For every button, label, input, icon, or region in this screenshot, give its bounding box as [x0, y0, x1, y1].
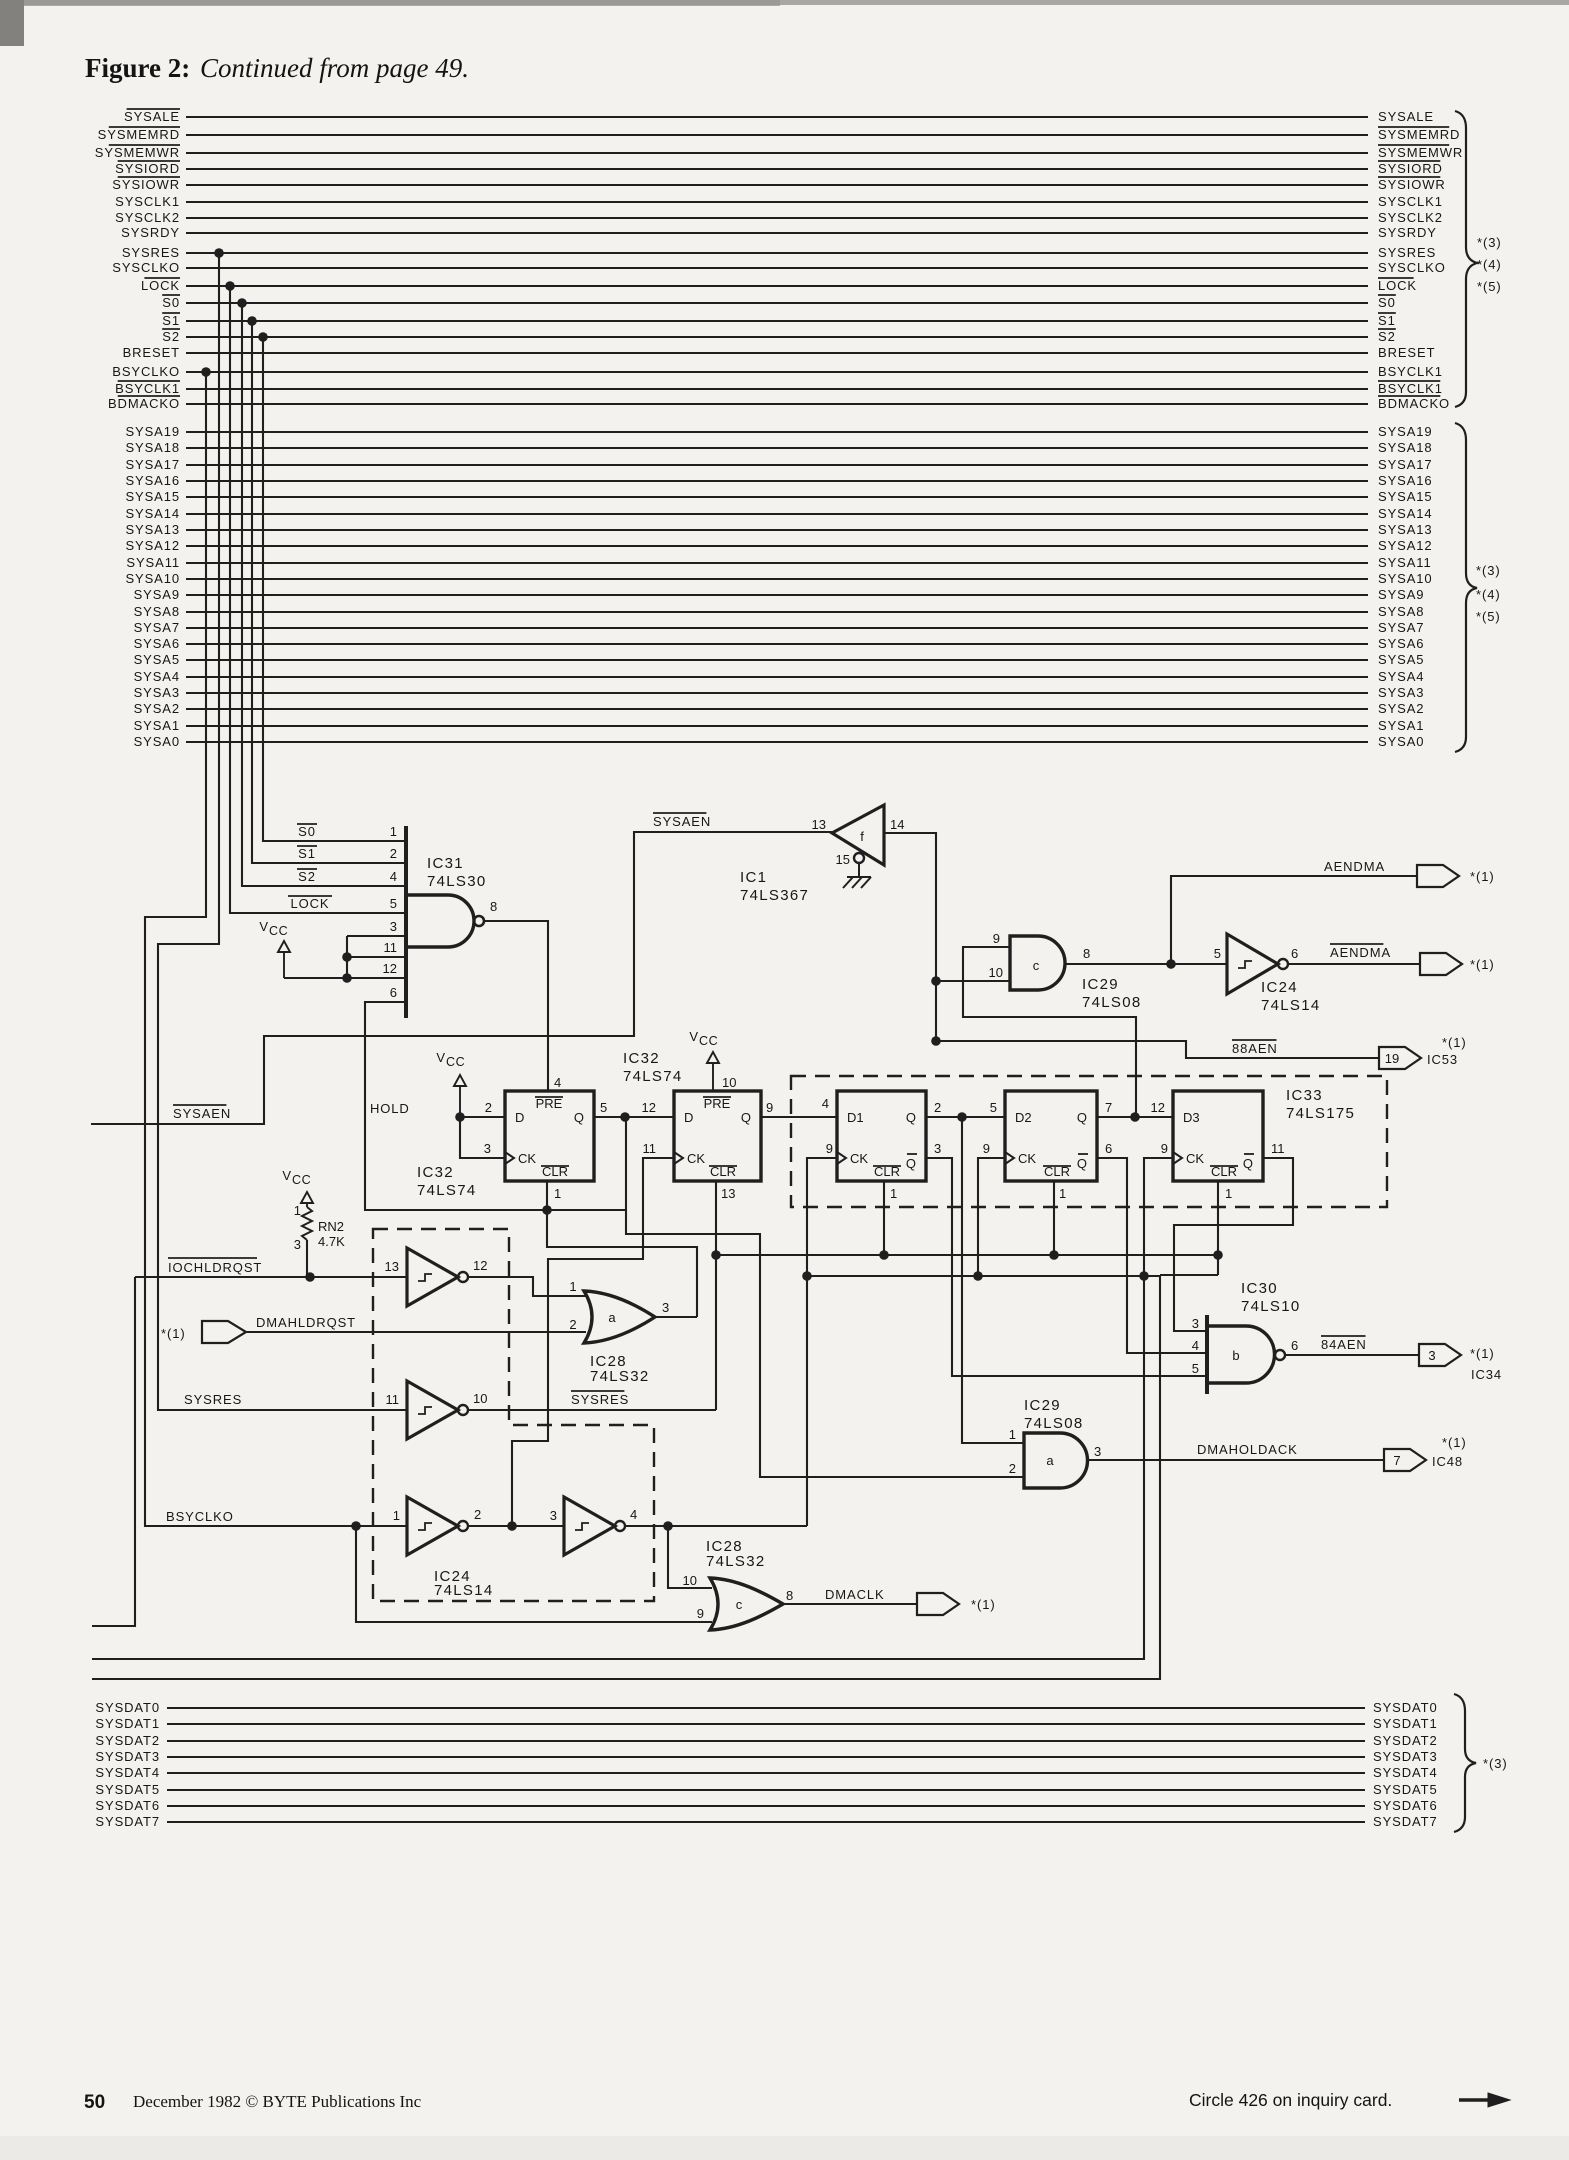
svg-text:SYSA18: SYSA18: [1378, 440, 1433, 455]
svg-text:S1: S1: [298, 846, 316, 861]
svg-text:D1: D1: [847, 1110, 864, 1125]
svg-text:SYSIORD: SYSIORD: [115, 161, 180, 176]
brace top block: [1455, 111, 1477, 407]
svg-text:4: 4: [554, 1075, 561, 1090]
svg-text:8: 8: [786, 1588, 793, 1603]
svg-text:HOLD: HOLD: [370, 1101, 410, 1116]
svg-text:Q: Q: [1077, 1156, 1087, 1171]
svg-text:IC31: IC31: [427, 855, 464, 872]
wire: SYSRES drop from bus to lower-left rail and SYSRES row: [158, 253, 407, 1410]
svg-text:SYSDAT7: SYSDAT7: [95, 1814, 160, 1829]
wire: IC32b CK from Schmitt chain: [512, 1158, 674, 1526]
svg-text:CK: CK: [1186, 1151, 1204, 1166]
svg-text:SYSCLKO: SYSCLKO: [112, 260, 180, 275]
bus line SYSDAT6: [167, 1805, 1365, 1807]
svg-text:SYSA9: SYSA9: [1378, 587, 1424, 602]
svg-text:*(1): *(1): [161, 1326, 186, 1341]
svg-text:SYSCLK2: SYSCLK2: [115, 210, 180, 225]
svg-text:RN2: RN2: [318, 1219, 344, 1234]
svg-text:6: 6: [390, 985, 397, 1000]
svg-text:CK: CK: [687, 1151, 705, 1166]
op IC24 inverter 11-10 (SYSRES): [407, 1381, 458, 1439]
svg-text:SYSRDY: SYSRDY: [121, 225, 180, 240]
bus line BRESET: [186, 352, 1368, 354]
junction dots (bus taps): [214, 248, 224, 258]
svg-text:3: 3: [1428, 1348, 1435, 1363]
svg-text:CK: CK: [850, 1151, 868, 1166]
wire: BSYCLKO drop from bus to lower-left rail and BSYCLKO row: [145, 372, 407, 1526]
svg-text:5: 5: [1214, 946, 1221, 961]
svg-text:IC29: IC29: [1024, 1397, 1061, 1414]
svg-text:S2: S2: [1378, 329, 1396, 344]
bus line SYSDAT5: [167, 1789, 1365, 1791]
wire: AND c pin 10 from 936 column: [936, 980, 1010, 982]
svg-text:3: 3: [1192, 1316, 1199, 1331]
svg-text:SYSA9: SYSA9: [134, 587, 180, 602]
svg-text:DMAHLDRQST: DMAHLDRQST: [256, 1315, 356, 1330]
svg-text:S1: S1: [1378, 313, 1396, 328]
svg-text:*(3): *(3): [1477, 235, 1502, 250]
svg-text:6: 6: [1105, 1141, 1112, 1156]
svg-text:SYSA15: SYSA15: [125, 489, 180, 504]
wire: D2 Q to D3 D: [1097, 1116, 1173, 1118]
svg-text:2: 2: [1009, 1461, 1016, 1476]
svg-text:Circle 426 on inquiry card.: Circle 426 on inquiry card.: [1189, 2090, 1392, 2110]
svg-text:BRESET: BRESET: [123, 345, 180, 360]
svg-text:12: 12: [473, 1258, 487, 1273]
wire: LOCK drop to IC31 pin 5: [230, 286, 406, 913]
svg-text:SYSA7: SYSA7: [134, 620, 180, 635]
svg-text:13: 13: [721, 1186, 735, 1201]
svg-text:SYSMEMRD: SYSMEMRD: [98, 127, 180, 142]
svg-text:*(1): *(1): [1470, 957, 1495, 972]
op IC1 74LS367 buffer f (points left): [832, 805, 884, 865]
svg-text:V: V: [282, 1168, 291, 1183]
IC1 pin15 bubble: [854, 853, 864, 863]
bus line SYSDAT0: [167, 1707, 1365, 1709]
wire: AENDMA-bar output: [1288, 963, 1420, 965]
svg-text:3: 3: [662, 1300, 669, 1315]
op IC28 OR gate a: [584, 1291, 655, 1343]
bus line SYSMEMRD: [186, 134, 1368, 136]
wire: IC32b CLR column to SYSRES-bar: [715, 1181, 717, 1410]
svg-text:12: 12: [1151, 1100, 1165, 1115]
svg-text:CK: CK: [518, 1151, 536, 1166]
svg-text:SYSA8: SYSA8: [134, 604, 180, 619]
svg-text:*(5): *(5): [1477, 279, 1502, 294]
bus line SYSIORD: [186, 168, 1368, 170]
op IC29 AND gate a: [1024, 1433, 1087, 1488]
wire: AENDMA line: [1171, 876, 1417, 964]
bus line SYSA14: [186, 513, 1368, 515]
svg-text:IC34: IC34: [1471, 1367, 1502, 1382]
svg-text:Q: Q: [1243, 1156, 1253, 1171]
svg-text:1: 1: [1059, 1186, 1066, 1201]
svg-text:SYSDAT6: SYSDAT6: [1373, 1798, 1438, 1813]
svg-text:1: 1: [554, 1186, 561, 1201]
bus line SYSA10: [186, 578, 1368, 580]
svg-text:IC30: IC30: [1241, 1280, 1278, 1297]
op IC31 74LS30 8-input NAND input bar: [404, 826, 408, 1018]
bus line BSYCLKO: [186, 371, 1368, 373]
svg-text:4: 4: [1192, 1338, 1199, 1353]
svg-text:S1: S1: [162, 313, 180, 328]
svg-text:b: b: [1232, 1348, 1239, 1363]
bus line SYSA11: [186, 562, 1368, 564]
svg-text:Q: Q: [1077, 1110, 1087, 1125]
svg-text:SYSA18: SYSA18: [125, 440, 180, 455]
svg-text:AENDMA: AENDMA: [1330, 945, 1391, 960]
svg-text:74LS175: 74LS175: [1286, 1105, 1355, 1122]
svg-text:1: 1: [294, 1203, 301, 1218]
svg-text:SYSA1: SYSA1: [1378, 718, 1424, 733]
bus line SYSA15: [186, 496, 1368, 498]
svg-text:1: 1: [569, 1279, 576, 1294]
arrow: [1459, 2098, 1492, 2102]
svg-text:SYSA19: SYSA19: [125, 424, 180, 439]
wire: D1 D input: [761, 1116, 837, 1118]
wire: D1 Qbar to NAND b pin 5: [926, 1158, 1207, 1376]
svg-text:SYSRDY: SYSRDY: [1378, 225, 1437, 240]
svg-text:*(1): *(1): [1442, 1035, 1467, 1050]
svg-text:74LS14: 74LS14: [434, 1582, 494, 1599]
svg-text:13: 13: [812, 817, 826, 832]
svg-text:SYSA16: SYSA16: [125, 473, 180, 488]
svg-text:4: 4: [822, 1096, 829, 1111]
svg-text:SYSRES: SYSRES: [571, 1392, 629, 1407]
bus line SYSA6: [186, 643, 1368, 645]
bus line BSYCLK1: [186, 388, 1368, 390]
svg-text:D: D: [684, 1110, 693, 1125]
svg-text:SYSDAT5: SYSDAT5: [95, 1782, 160, 1797]
wire: CLR stubs of D1 D2 D3: [884, 1181, 1218, 1275]
bus line SYSCLK1: [186, 201, 1368, 203]
svg-text:f: f: [860, 829, 864, 844]
connector DMACLK *(1): [917, 1593, 959, 1615]
bus line SYSA1: [186, 725, 1368, 727]
svg-text:8: 8: [1083, 946, 1090, 961]
wire: inverter 12 output to OR a pin 1: [468, 1277, 586, 1296]
bus line SYSDAT1: [167, 1723, 1365, 1725]
svg-text:SYSA6: SYSA6: [1378, 636, 1424, 651]
svg-text:c: c: [736, 1597, 743, 1612]
bus line SYSA3: [186, 692, 1368, 694]
svg-text:SYSMEMWR: SYSMEMWR: [95, 145, 180, 160]
IC24 74LS14 dashed outline: [373, 1229, 654, 1601]
wire: S0 column drop to IC31 pin 1: [263, 337, 406, 841]
svg-text:SYSA5: SYSA5: [134, 652, 180, 667]
svg-text:SYSRES: SYSRES: [1378, 245, 1436, 260]
svg-text:Continued from page 49.: Continued from page 49.: [200, 53, 469, 83]
bus line SYSRES: [186, 252, 1368, 254]
svg-text:12: 12: [383, 961, 397, 976]
svg-text:74LS367: 74LS367: [740, 887, 809, 904]
bus line SYSA7: [186, 627, 1368, 629]
svg-text:*(1): *(1): [1442, 1435, 1467, 1450]
resistor RN2 4.7K: [302, 1207, 312, 1240]
svg-text:1: 1: [390, 824, 397, 839]
bus line SYSA18: [186, 447, 1368, 449]
svg-text:SYSCLKO: SYSCLKO: [1378, 260, 1446, 275]
svg-text:9: 9: [766, 1100, 773, 1115]
svg-text:SYSCLK1: SYSCLK1: [115, 194, 180, 209]
svg-text:CC: CC: [699, 1034, 718, 1048]
wire: SYSRES-bar output: [468, 1409, 716, 1411]
svg-text:SYSA0: SYSA0: [134, 734, 180, 749]
wire: D2 CK: [978, 1158, 1005, 1276]
svg-text:SYSA17: SYSA17: [1378, 457, 1433, 472]
svg-text:IC32: IC32: [417, 1164, 454, 1181]
svg-text:BRESET: BRESET: [1378, 345, 1435, 360]
svg-text:DMACLK: DMACLK: [825, 1587, 885, 1602]
svg-text:74LS32: 74LS32: [590, 1368, 650, 1385]
svg-text:12: 12: [642, 1100, 656, 1115]
wire: D2 Qbar to NAND b pin 4: [1097, 1158, 1207, 1353]
svg-text:*(1): *(1): [971, 1597, 996, 1612]
svg-text:SYSA8: SYSA8: [1378, 604, 1424, 619]
wire: IC32a CLR net: [547, 1181, 697, 1317]
op IC28 OR gate c: [710, 1578, 783, 1630]
bus line SYSMEMWR: [186, 152, 1368, 154]
svg-text:BSYCLK1: BSYCLK1: [1378, 364, 1443, 379]
connector 88AEN pin 19 to IC53: [1379, 1047, 1421, 1069]
wire: IC31 output to IC32 pin 4 (PRE): [484, 921, 548, 1091]
bus line SYSA16: [186, 480, 1368, 482]
IC33 74LS175 dashed outline: [791, 1076, 1387, 1207]
wire: D1 CK from clock column: [807, 1158, 837, 1526]
svg-text:*(1): *(1): [1470, 869, 1495, 884]
svg-text:10: 10: [989, 965, 1003, 980]
svg-text:SYSDAT0: SYSDAT0: [95, 1700, 160, 1715]
svg-text:74LS08: 74LS08: [1024, 1415, 1084, 1432]
svg-text:74LS08: 74LS08: [1082, 994, 1142, 1011]
svg-text:2: 2: [474, 1507, 481, 1522]
svg-text:SYSA4: SYSA4: [1378, 669, 1424, 684]
svg-text:74LS14: 74LS14: [1261, 997, 1321, 1014]
svg-text:11: 11: [384, 940, 398, 955]
bus line SYSA8: [186, 611, 1368, 613]
bus line S2: [186, 336, 1368, 338]
bus line S1: [186, 320, 1368, 322]
svg-text:74LS32: 74LS32: [706, 1553, 766, 1570]
bus line SYSDAT2: [167, 1740, 1365, 1742]
svg-text:*(4): *(4): [1476, 587, 1501, 602]
wire: IC32a D and CK tied to Vcc: [460, 1117, 505, 1158]
wire: IOCHLDRQST line: [92, 1277, 407, 1626]
svg-text:SYSDAT0: SYSDAT0: [1373, 1700, 1438, 1715]
svg-text:6: 6: [1291, 1338, 1298, 1353]
svg-text:5: 5: [1192, 1361, 1199, 1376]
svg-text:IC48: IC48: [1432, 1454, 1463, 1469]
svg-text:BDMACKO: BDMACKO: [1378, 396, 1450, 411]
svg-text:V: V: [259, 919, 268, 934]
svg-text:V: V: [436, 1050, 445, 1065]
svg-text:IC33: IC33: [1286, 1087, 1323, 1104]
svg-text:SYSA15: SYSA15: [1378, 489, 1433, 504]
IC31 output bubble: [474, 916, 484, 926]
svg-text:SYSA14: SYSA14: [1378, 506, 1433, 521]
bus line SYSDAT7: [167, 1821, 1365, 1823]
svg-text:*(5): *(5): [1476, 609, 1501, 624]
svg-text:SYSA7: SYSA7: [1378, 620, 1424, 635]
wire: Q1 branch down to AND a pin 2: [626, 1117, 1024, 1477]
svg-text:S2: S2: [298, 869, 316, 884]
svg-text:SYSAEN: SYSAEN: [173, 1106, 231, 1121]
svg-text:9: 9: [697, 1606, 704, 1621]
svg-text:*(3): *(3): [1483, 1756, 1508, 1771]
svg-text:CC: CC: [292, 1173, 311, 1187]
wire: DMAHLDRQST to OR a pin 2: [246, 1331, 586, 1333]
svg-text:LOCK: LOCK: [141, 278, 180, 293]
svg-text:SYSA6: SYSA6: [134, 636, 180, 651]
svg-text:3: 3: [294, 1237, 301, 1252]
svg-text:1: 1: [393, 1508, 400, 1523]
wire: OR a output riser: [655, 1316, 697, 1318]
svg-text:SYSA12: SYSA12: [1378, 538, 1433, 553]
wire: D3 Qbar loop to NAND b pin 3: [1174, 1158, 1293, 1331]
svg-text:74LS74: 74LS74: [623, 1068, 683, 1085]
svg-text:13: 13: [385, 1259, 399, 1274]
svg-text:4: 4: [390, 869, 397, 884]
flip-flop IC33 D3: [1173, 1091, 1263, 1181]
svg-text:3: 3: [1094, 1444, 1101, 1459]
wire: S2 column drop to IC31 pin 4: [242, 303, 406, 886]
svg-text:IC53: IC53: [1427, 1052, 1458, 1067]
op IC24 Schmitt inverter (AENDMA): [1227, 934, 1278, 994]
wire: S1 column drop to IC31 pin 2: [252, 321, 406, 863]
svg-text:SYSMEMWR: SYSMEMWR: [1378, 145, 1463, 160]
wire: IC31 pin 6 from HOLD riser: [365, 1002, 547, 1210]
svg-text:SYSA3: SYSA3: [134, 685, 180, 700]
flip-flop IC33 D2: [1005, 1091, 1097, 1181]
IC31 pin stub lines 3,11,12 tied to Vcc: [284, 936, 406, 978]
svg-text:SYSA1: SYSA1: [134, 718, 180, 733]
svg-text:4.7K: 4.7K: [318, 1234, 345, 1249]
svg-text:PRE: PRE: [704, 1096, 731, 1111]
svg-text:IOCHLDRQST: IOCHLDRQST: [168, 1260, 262, 1275]
svg-text:SYSA13: SYSA13: [1378, 522, 1433, 537]
bus line SYSA19: [186, 431, 1368, 433]
svg-text:11: 11: [643, 1141, 657, 1156]
bus line SYSA5: [186, 659, 1368, 661]
bus line SYSA13: [186, 529, 1368, 531]
bus line BDMACKO: [186, 403, 1368, 405]
bus line SYSA17: [186, 464, 1368, 466]
svg-text:2: 2: [569, 1317, 576, 1332]
wire: OR c output DMACLK: [783, 1603, 917, 1605]
svg-text:BDMACKO: BDMACKO: [108, 396, 180, 411]
svg-text:1: 1: [1225, 1186, 1232, 1201]
bus line SYSALE: [186, 116, 1368, 118]
scan artifact: dark top edge strip: [0, 0, 1569, 5]
svg-text:SYSA12: SYSA12: [125, 538, 180, 553]
svg-text:S0: S0: [162, 295, 180, 310]
svg-text:SYSA14: SYSA14: [125, 506, 180, 521]
svg-text:5: 5: [990, 1100, 997, 1115]
svg-text:SYSDAT3: SYSDAT3: [95, 1749, 160, 1764]
svg-text:2: 2: [934, 1100, 941, 1115]
svg-text:SYSA2: SYSA2: [1378, 701, 1424, 716]
svg-text:10: 10: [683, 1573, 697, 1588]
svg-text:a: a: [608, 1310, 616, 1325]
svg-text:LOCK: LOCK: [290, 896, 329, 911]
svg-text:BSYCLKO: BSYCLKO: [166, 1509, 234, 1524]
wire: AND a output DMAHOLDACK: [1087, 1459, 1384, 1461]
wire: clock row (row B) and CLR return: [92, 1275, 1218, 1679]
connector pin 7 to IC48: [1384, 1449, 1426, 1471]
op IC30 NAND gate b input bar: [1205, 1315, 1209, 1394]
svg-text:3: 3: [484, 1141, 491, 1156]
svg-text:V: V: [689, 1029, 698, 1044]
svg-text:9: 9: [983, 1141, 990, 1156]
svg-text:88AEN: 88AEN: [1232, 1041, 1278, 1056]
svg-text:AENDMA: AENDMA: [1324, 859, 1385, 874]
svg-text:74LS74: 74LS74: [417, 1182, 477, 1199]
svg-text:SYSDAT1: SYSDAT1: [95, 1716, 160, 1731]
wire: 88AEN line from 936 column: [936, 1041, 1379, 1058]
svg-text:c: c: [1033, 958, 1040, 973]
svg-text:8: 8: [490, 899, 497, 914]
svg-text:LOCK: LOCK: [1378, 278, 1417, 293]
connector AENDMA *(1): [1417, 865, 1459, 887]
svg-text:*(3): *(3): [1476, 563, 1501, 578]
connector DMAHLDRQST input *(1): [202, 1321, 246, 1343]
svg-text:a: a: [1046, 1453, 1054, 1468]
svg-text:15: 15: [836, 852, 850, 867]
svg-text:6: 6: [1291, 946, 1298, 961]
wire: inverter 4 output down to OR c pin 10: [668, 1526, 712, 1588]
wire: CLR row (row A): [716, 1254, 1218, 1256]
svg-text:SYSDAT5: SYSDAT5: [1373, 1782, 1438, 1797]
svg-text:5: 5: [600, 1100, 607, 1115]
svg-text:SYSIORD: SYSIORD: [1378, 161, 1443, 176]
svg-text:7: 7: [1393, 1453, 1400, 1468]
svg-text:S2: S2: [162, 329, 180, 344]
bus line S0: [186, 302, 1368, 304]
wire: D1 Q to D2 D: [926, 1116, 1005, 1118]
svg-text:*(1): *(1): [1470, 1346, 1495, 1361]
wire: NAND b output 84AEN: [1285, 1354, 1419, 1356]
svg-text:3: 3: [934, 1141, 941, 1156]
flip-flop IC32a 74LS74: [505, 1091, 594, 1181]
svg-text:9: 9: [1161, 1141, 1168, 1156]
svg-text:D: D: [515, 1110, 524, 1125]
svg-text:SYSMEMRD: SYSMEMRD: [1378, 127, 1460, 142]
svg-text:D2: D2: [1015, 1110, 1032, 1125]
svg-text:CK: CK: [1018, 1151, 1036, 1166]
svg-text:9: 9: [826, 1141, 833, 1156]
svg-text:DMAHOLDACK: DMAHOLDACK: [1197, 1442, 1298, 1457]
wire: Q2 branch down to AND a pin 1: [962, 1117, 1024, 1443]
svg-text:SYSALE: SYSALE: [1378, 109, 1434, 124]
svg-text:BSYCLK1: BSYCLK1: [1378, 381, 1443, 396]
svg-text:Q: Q: [906, 1110, 916, 1125]
svg-text:14: 14: [890, 817, 904, 832]
svg-text:SYSALE: SYSALE: [124, 109, 180, 124]
svg-text:SYSAEN: SYSAEN: [653, 814, 711, 829]
op IC24 inverter 13-12 (IOCHLDRQST): [407, 1248, 458, 1306]
svg-text:19: 19: [1385, 1051, 1399, 1066]
svg-text:S0: S0: [298, 824, 316, 839]
op IC29 AND gate c: [1010, 936, 1065, 990]
ground: [843, 863, 871, 888]
svg-text:74LS10: 74LS10: [1241, 1298, 1301, 1315]
svg-text:SYSDAT4: SYSDAT4: [95, 1765, 160, 1780]
op IC24 inverter 1-2 (BSYCLKO): [407, 1497, 458, 1555]
brace data block: [1454, 1694, 1476, 1832]
svg-text:SYSDAT6: SYSDAT6: [95, 1798, 160, 1813]
svg-text:BSYCLKO: BSYCLKO: [112, 364, 180, 379]
